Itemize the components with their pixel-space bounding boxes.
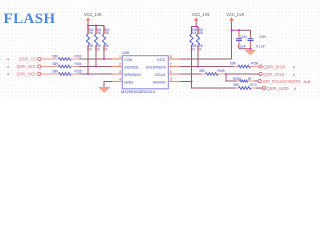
svg-text:8: 8	[170, 55, 172, 59]
svg-text:GND: GND	[124, 80, 133, 85]
resistor R168 33R (series SIO3)	[230, 61, 259, 68]
wire: pull-up column to SIO2 row	[87, 51, 89, 74]
svg-text:4,8: 4,8	[304, 80, 311, 84]
pin 1 CS#	[112, 55, 122, 59]
wire: SIO0 pin to junction	[180, 81, 192, 83]
svg-text:QSPI_RTCLK/SYSBOOT3: QSPI_RTCLK/SYSBOOT3	[262, 79, 300, 84]
svg-text:1%: 1%	[105, 47, 108, 51]
wire: right pull-up rail	[192, 26, 199, 28]
junction	[238, 29, 240, 31]
svg-text:QSPI_SIO0: QSPI_SIO0	[267, 86, 290, 91]
wire: pull-up column to SIO1 row	[95, 51, 97, 67]
flag QSPI_SIO1	[7, 64, 41, 69]
svg-text:VCC_1V8: VCC_1V8	[84, 12, 102, 17]
resistor R163 33R (series CS)	[41, 54, 82, 60]
svg-text:R165: R165	[75, 69, 82, 73]
svg-text:0R: 0R	[248, 77, 252, 81]
flag QSPI_RTCLK/SYSBOOT3	[258, 79, 310, 84]
power net VCC_1V8 (decoupling)	[226, 12, 244, 30]
junction	[249, 48, 251, 50]
flag QSPI_SIO3	[259, 65, 295, 70]
flag QSPI_SIO2	[7, 71, 41, 76]
capacitor C195 0.1uF	[248, 35, 266, 49]
svg-text:3: 3	[119, 70, 121, 74]
svg-text:4: 4	[7, 57, 9, 61]
wire: SIO2 row to pin	[79, 73, 112, 75]
wire: pull-up column to SIO0 junction	[191, 51, 193, 82]
resistor R166 10K (pull-up SIO0)	[190, 27, 197, 52]
resistor R167 10K (pull-up SIO3)	[196, 27, 203, 52]
svg-text:2: 2	[119, 63, 121, 67]
svg-text:QSPI_SIO1: QSPI_SIO1	[17, 64, 37, 69]
flag QSPI_CS	[7, 56, 41, 61]
IC U38 MX25R6435F flash	[121, 50, 168, 94]
svg-text:HOLD#/SIO3: HOLD#/SIO3	[146, 65, 166, 70]
svg-text:VCC: VCC	[157, 57, 166, 62]
power net VCC_1V8 (right pull-up group)	[192, 12, 210, 27]
wire: SIO0 drop and run	[192, 82, 237, 89]
capacitor C194 2.2uF	[236, 30, 247, 49]
svg-text:VCC_1V8: VCC_1V8	[192, 12, 210, 17]
junction	[195, 25, 197, 27]
svg-text:SI/SIO0: SI/SIO0	[153, 80, 167, 85]
svg-text:10K: 10K	[105, 31, 110, 35]
svg-text:R168: R168	[251, 61, 258, 65]
resistor R160 10K (pull-up CS)	[102, 26, 109, 52]
svg-text:7: 7	[170, 63, 172, 67]
svg-text:5: 5	[170, 78, 172, 82]
svg-text:4: 4	[293, 73, 295, 77]
ground (decoupling)	[245, 50, 256, 55]
junction CS/pull-up	[103, 58, 105, 60]
ground (left)	[99, 87, 110, 92]
flag QSPI_SCLK	[259, 72, 295, 77]
pin 2 SO/SIO1	[112, 63, 122, 67]
junction SIO1/pull-up	[95, 65, 97, 67]
svg-text:2.2uF: 2.2uF	[237, 44, 246, 48]
resistor R169 33R (series SCLK)	[199, 69, 226, 76]
wire: decoupling rail	[232, 30, 251, 34]
svg-text:R164: R164	[75, 62, 82, 66]
svg-text:10K: 10K	[199, 31, 204, 35]
svg-text:CS#: CS#	[124, 57, 133, 62]
wire: left pull-up rail	[88, 25, 104, 27]
resistor R170 33R (series SIO0)	[233, 83, 262, 89]
resistor R165 33R (series SIO2)	[41, 69, 82, 75]
svg-text:C194: C194	[240, 35, 247, 39]
svg-text:33R: 33R	[52, 69, 58, 73]
flag QSPI_SIO0	[262, 86, 296, 91]
svg-text:SCLK: SCLK	[155, 72, 166, 77]
wire: pull-up column to CS row	[103, 51, 105, 59]
svg-text:SO/SIO1: SO/SIO1	[124, 65, 139, 70]
svg-text:R170: R170	[250, 83, 257, 87]
pin 5 SI/SIO0	[168, 78, 180, 82]
svg-text:33R: 33R	[52, 54, 58, 58]
wire: pin8 to VCC rail	[180, 58, 232, 60]
svg-text:1: 1	[119, 55, 121, 59]
svg-text:QSPI_SCLK: QSPI_SCLK	[263, 72, 285, 77]
resistor R161 10K (pull-up SIO1)	[94, 26, 101, 52]
svg-text:33R: 33R	[230, 61, 236, 65]
svg-text:33R: 33R	[52, 62, 58, 66]
wire: SCLK to flag	[226, 73, 259, 75]
wire: VCC rail down to pin8	[231, 30, 233, 59]
junction SIO2/pull-up	[87, 73, 89, 75]
svg-text:FLASH: FLASH	[4, 11, 56, 27]
junction SIO3/pull-up	[197, 65, 199, 67]
svg-text:C195: C195	[259, 35, 266, 39]
svg-text:6: 6	[170, 70, 172, 74]
junction	[230, 29, 232, 31]
svg-text:VCC_1V8: VCC_1V8	[226, 12, 244, 17]
svg-text:MX25R6435FM2IL0: MX25R6435FM2IL0	[121, 90, 155, 94]
svg-text:0.1uF: 0.1uF	[256, 44, 265, 48]
svg-text:4: 4	[294, 87, 296, 91]
svg-text:R169: R169	[218, 69, 225, 73]
wire: pull-up column to SIO3 row	[197, 51, 199, 67]
svg-text:10K: 10K	[97, 31, 102, 35]
junction SIO0/pull-up	[190, 80, 192, 82]
resistor R162 10K (pull-up SIO2)	[86, 26, 93, 52]
svg-text:QSPI_SIO3: QSPI_SIO3	[263, 65, 286, 70]
wire: RTCLK branch	[226, 74, 237, 81]
svg-text:4: 4	[7, 72, 9, 76]
svg-text:1%: 1%	[97, 47, 100, 51]
wire: SCLK row	[180, 73, 202, 75]
wire: SIO3 row	[180, 66, 234, 68]
svg-text:QSPI_CS: QSPI_CS	[19, 56, 36, 61]
svg-text:R163: R163	[75, 54, 82, 58]
pin 6 SCLK	[168, 70, 180, 74]
wire: GND pin to ground	[104, 82, 112, 88]
svg-text:WP#/SIO2: WP#/SIO2	[124, 72, 141, 77]
svg-text:4: 4	[119, 78, 121, 82]
pin 8 VCC	[168, 55, 180, 59]
pin 7 HOLD#/SIO3	[168, 63, 180, 67]
pin 3 WP#/SIO2	[112, 70, 122, 74]
svg-text:10K: 10K	[192, 31, 197, 35]
power net VCC_1V8 (left pull-up group)	[84, 12, 102, 26]
svg-text:1%: 1%	[192, 47, 195, 51]
svg-text:1%: 1%	[199, 47, 202, 51]
resistor R208 0R (series RTCLK)	[233, 77, 258, 82]
svg-text:4: 4	[7, 65, 9, 69]
svg-text:33R: 33R	[233, 83, 239, 87]
svg-text:U38: U38	[122, 50, 130, 55]
svg-text:10K: 10K	[89, 31, 94, 35]
pin 4 GND	[112, 78, 122, 82]
svg-text:1%: 1%	[89, 47, 92, 51]
wire: CS row to pin	[79, 58, 112, 60]
svg-text:QSPI_SIO2: QSPI_SIO2	[17, 71, 37, 76]
junction	[87, 24, 89, 26]
wire: cap bottoms join	[239, 49, 251, 51]
resistor R164 33R (series SIO1)	[41, 62, 82, 68]
junction	[95, 24, 97, 26]
wire: SIO1 row to pin	[79, 66, 112, 68]
svg-text:33R: 33R	[199, 69, 205, 73]
svg-text:4: 4	[293, 66, 295, 70]
junction SCLK/RTCLK branch	[225, 73, 227, 75]
